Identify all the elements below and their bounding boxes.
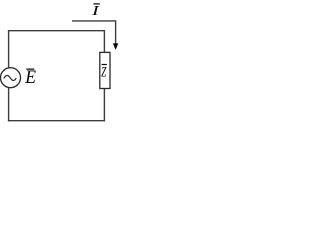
- wire right vertical lower segment: [103, 89, 105, 122]
- wire right vertical upper segment: [103, 31, 105, 53]
- svg-text:I: I: [91, 2, 100, 18]
- svg-text:Z: Z: [101, 63, 107, 80]
- wire left vertical lower segment: [8, 88, 10, 122]
- wire top horizontal: [8, 30, 105, 32]
- current indicator line: [72, 21, 116, 45]
- overbar of Z: [102, 64, 107, 66]
- impedance Z (box): [100, 52, 110, 88]
- AC source E (circle): [1, 68, 21, 88]
- overbar of I: [93, 3, 99, 5]
- wire left vertical upper segment: [8, 31, 10, 68]
- overbar of E: [26, 68, 34, 70]
- current arrowhead: [113, 43, 118, 50]
- wire bottom horizontal: [8, 120, 105, 122]
- AC source sine wave: [4, 76, 16, 81]
